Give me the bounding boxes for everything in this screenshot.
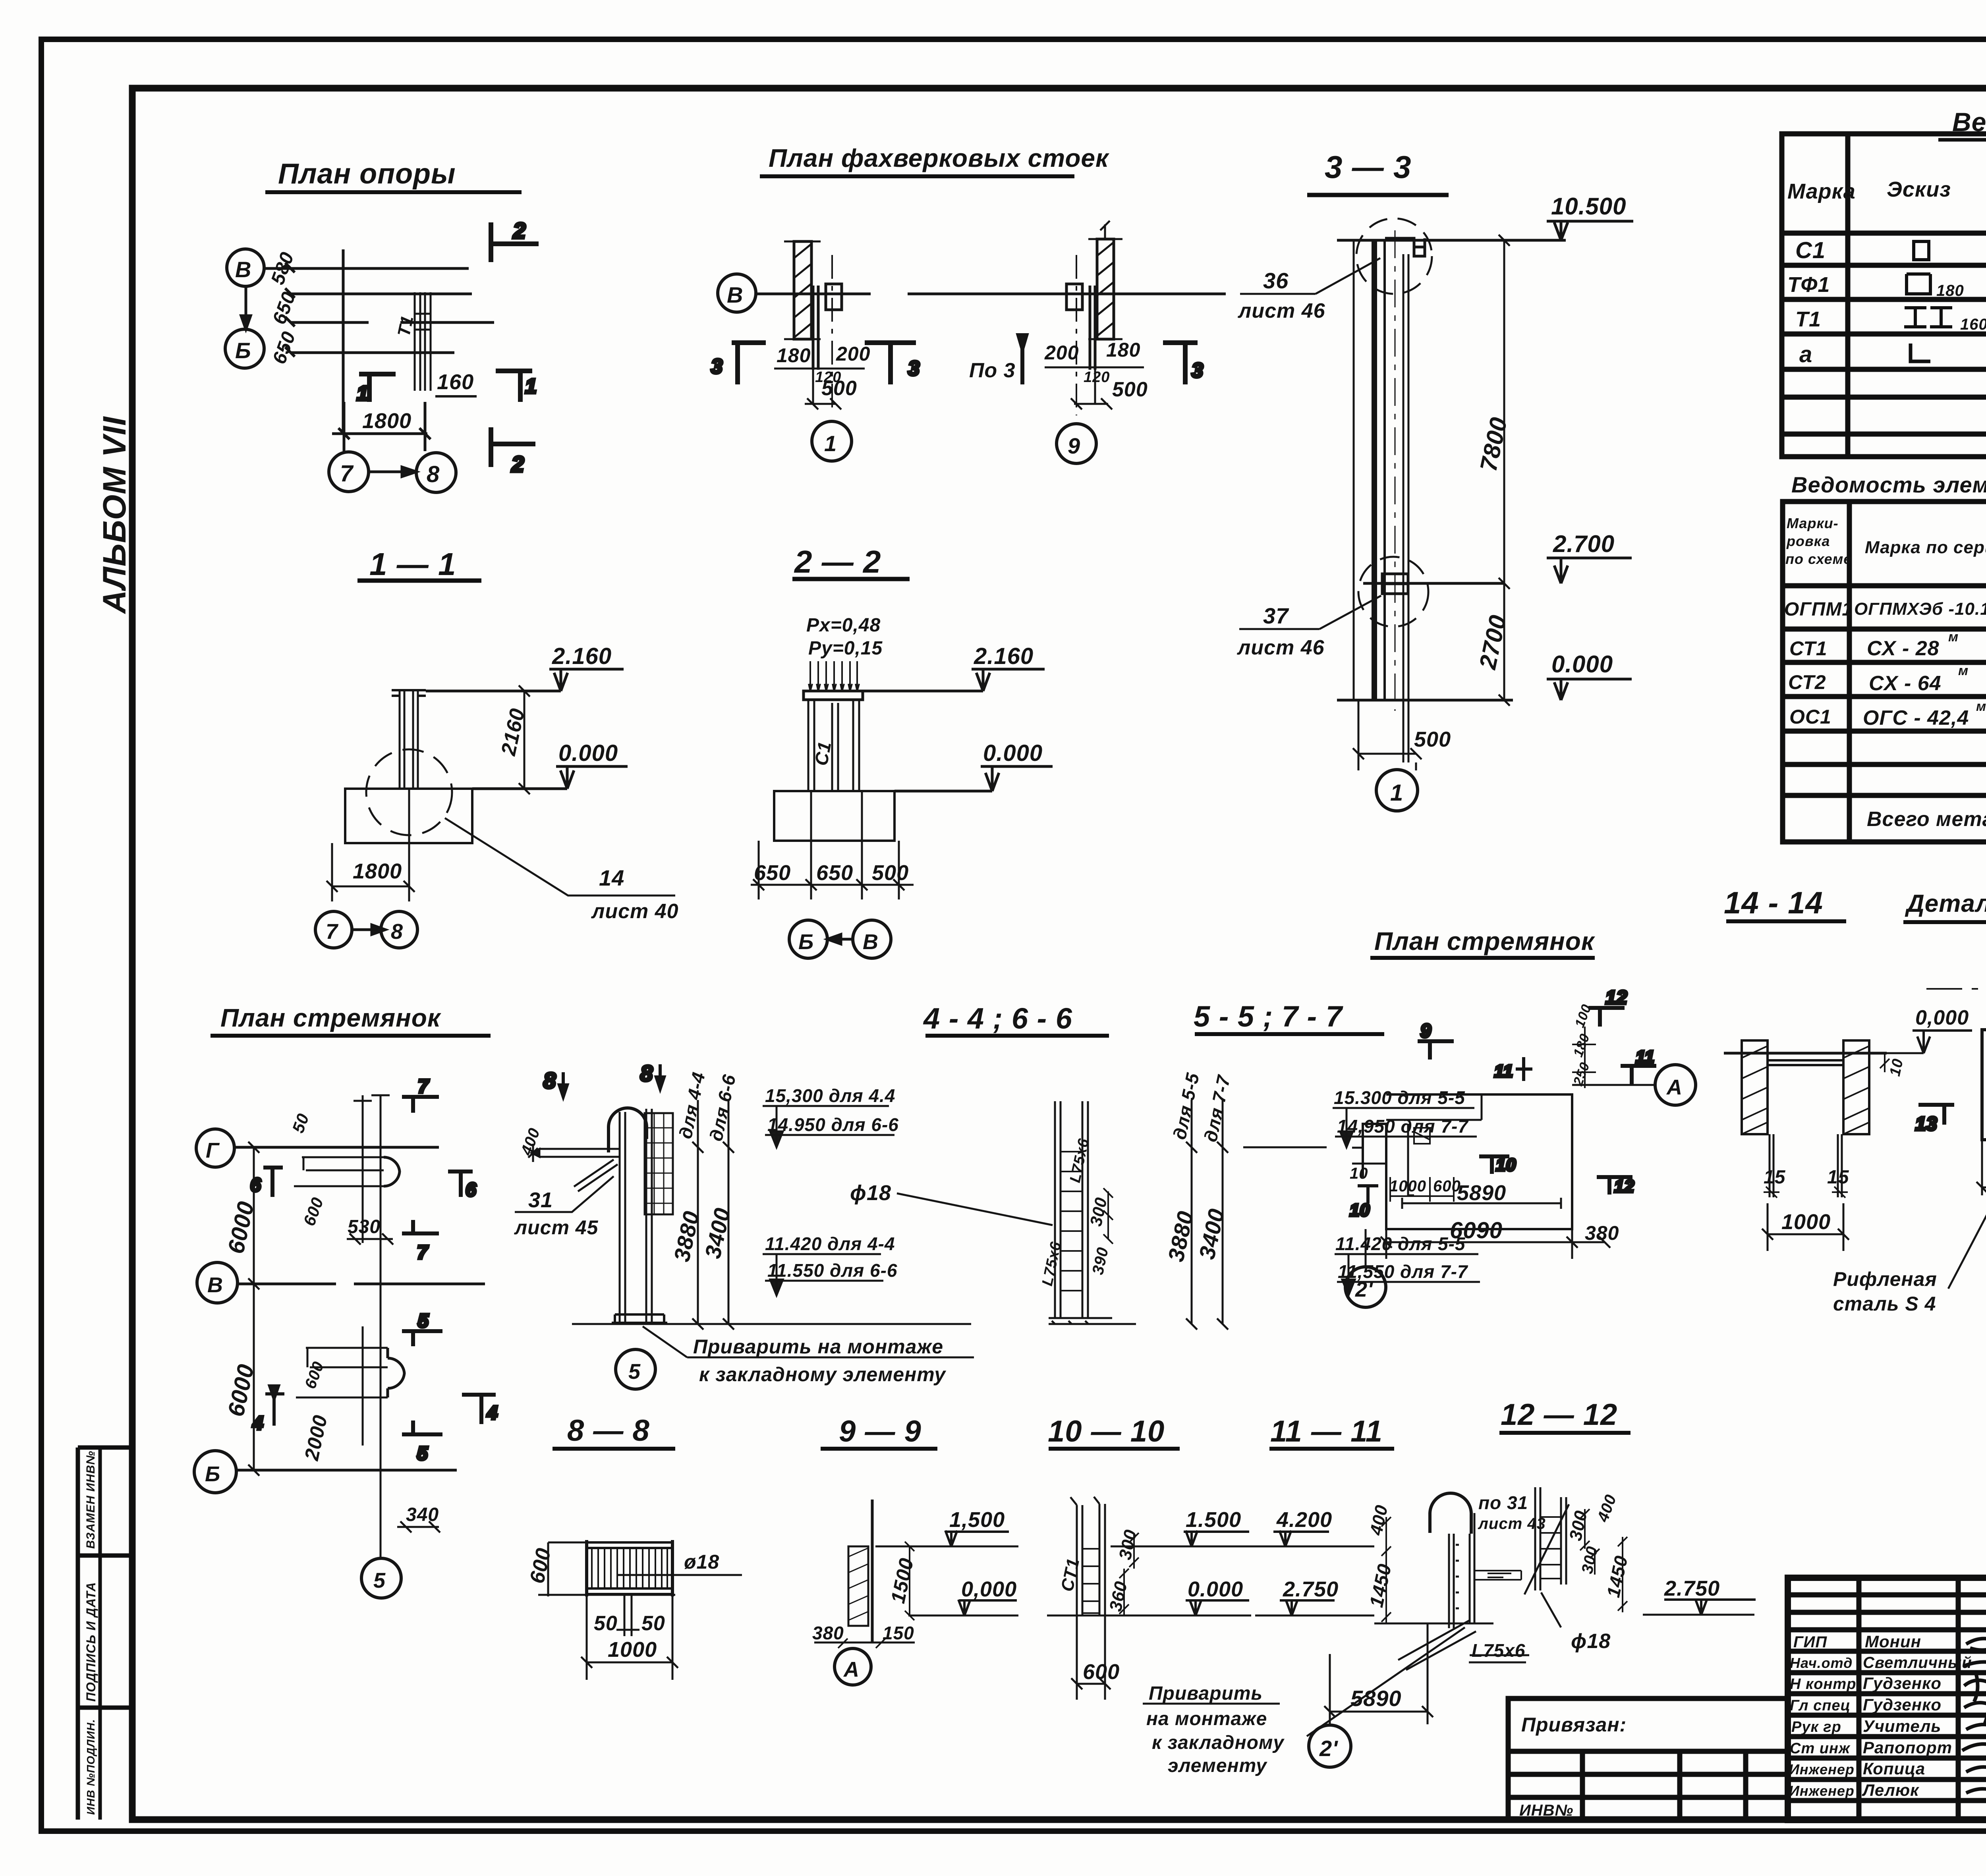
top joint bracket <box>1385 238 1425 256</box>
right pier hatch <box>1843 1046 1869 1134</box>
marker 4 left <box>265 1386 284 1426</box>
svg-text:650: 650 <box>754 861 791 885</box>
hatched wall right <box>1097 239 1114 339</box>
svg-text:ОС1: ОС1 <box>1789 706 1831 728</box>
section marker 2 top <box>491 222 539 262</box>
svg-text:ПОДПИСЬ И ДАТА: ПОДПИСЬ И ДАТА <box>84 1582 98 1702</box>
title underline <box>760 174 1074 178</box>
dim line 500 left <box>805 370 841 409</box>
wall top tick right <box>1100 221 1110 239</box>
dim line 6090 <box>1381 1229 1578 1259</box>
marker 7 bottom <box>402 1220 439 1233</box>
svg-text:6: 6 <box>250 1175 261 1196</box>
dim 1500 line <box>905 1542 914 1620</box>
level line 1.500 b <box>1111 1546 1251 1548</box>
table2 column lines <box>1847 502 1852 842</box>
section marker По3 flag <box>1018 335 1026 384</box>
svg-text:Эскиз: Эскиз <box>1887 178 1951 201</box>
svg-text:6: 6 <box>466 1179 477 1200</box>
TABLE 2 Ведомость элементов по серии <box>1783 472 1986 842</box>
dim line для 6-6 <box>723 1100 734 1330</box>
ladder rails 4-4 <box>620 1109 652 1323</box>
svg-text:План стремянок: План стремянок <box>1374 927 1596 955</box>
ground line <box>1337 699 1513 702</box>
svg-text:Ст инж: Ст инж <box>1790 1740 1851 1757</box>
dim line для 5-5 <box>1186 1100 1197 1330</box>
lower stair hook <box>388 1348 404 1397</box>
ground line 9-9 <box>814 1642 915 1644</box>
arrow В to Б <box>241 286 251 329</box>
svg-text:м: м <box>1958 663 1969 678</box>
dim line 5890 b <box>1324 1623 1433 1724</box>
section marker 1 right <box>496 371 532 402</box>
svg-text:8: 8 <box>640 1061 653 1086</box>
level line 4.200 <box>1251 1546 1374 1548</box>
DRAWING Section 4-4 6-6 <box>514 1002 1109 1389</box>
ground line 11-11 <box>1374 1623 1493 1625</box>
svg-text:Деталь съемного щита: Деталь съемного щита <box>1905 890 1986 917</box>
level flag 2.160 <box>549 669 624 691</box>
svg-text:10: 10 <box>1350 1165 1368 1182</box>
svg-text:11.420 для 5-5: 11.420 для 5-5 <box>1335 1233 1466 1254</box>
right pier hatched <box>1843 1040 1869 1134</box>
dim 400 line b <box>1381 1517 1391 1546</box>
level line 0.000 right <box>894 790 992 793</box>
svg-text:План опоры: План опоры <box>278 158 456 190</box>
svg-text:3: 3 <box>908 357 920 380</box>
axis line left detail <box>756 293 871 295</box>
svg-text:А: А <box>843 1658 860 1681</box>
svg-text:В: В <box>863 930 879 954</box>
title underline <box>821 1447 937 1451</box>
level underline 14950 <box>765 1134 894 1136</box>
axis line Б <box>291 351 454 354</box>
grid circle Г <box>196 1129 234 1167</box>
axis line Б <box>236 1469 457 1472</box>
axis stub 5-5 <box>1243 1146 1327 1148</box>
svg-text:Н контр.: Н контр. <box>1790 1676 1861 1693</box>
level line 11420 b <box>1335 1254 1478 1295</box>
platform inner edge <box>1386 1094 1572 1229</box>
svg-text:Приварить: Приварить <box>1149 1683 1263 1704</box>
level line 0.000 c <box>908 1615 1018 1617</box>
top joint detail circle <box>1356 218 1432 294</box>
svg-text:Рх=0,48: Рх=0,48 <box>806 615 881 636</box>
DRAWING Section 11-11 <box>1143 1415 1546 1776</box>
svg-text:0.000: 0.000 <box>1188 1577 1243 1601</box>
level line 15300 b <box>1333 1108 1474 1147</box>
marker 8 right arrow <box>656 1064 664 1089</box>
small dims top right <box>1572 1027 1596 1088</box>
svg-text:5 - 5 ; 7 - 7: 5 - 5 ; 7 - 7 <box>1194 1000 1344 1033</box>
svg-text:Б: Б <box>235 338 251 363</box>
svg-text:ОГС - 42,4: ОГС - 42,4 <box>1863 706 1969 730</box>
bolt plate right <box>1066 284 1082 310</box>
plate hatch 9-9 <box>848 1548 868 1620</box>
level flag 0.000 right <box>981 766 1053 791</box>
svg-text:0.000: 0.000 <box>1551 651 1613 677</box>
step dim 300 <box>1103 1188 1113 1244</box>
svg-text:160: 160 <box>437 370 474 394</box>
svg-text:лист 46: лист 46 <box>1236 636 1325 659</box>
svg-text:15: 15 <box>1827 1167 1849 1188</box>
svg-text:1000: 1000 <box>608 1638 657 1662</box>
column body 2-2 <box>808 700 859 791</box>
ground line 10-10 <box>1047 1615 1196 1617</box>
svg-text:11: 11 <box>1494 1062 1513 1081</box>
svg-text:7: 7 <box>417 1242 429 1263</box>
svg-text:Инженер: Инженер <box>1789 1783 1855 1799</box>
svg-text:2 — 2: 2 — 2 <box>794 544 881 579</box>
svg-text:ТФ1: ТФ1 <box>1787 273 1830 297</box>
svg-text:Марка: Марка <box>1787 179 1856 203</box>
svg-text:Копица: Копица <box>1863 1759 1925 1778</box>
circle 1 below <box>1376 770 1418 811</box>
ladder hook 11-11 <box>1430 1493 1471 1534</box>
DRAWING План стремянок left <box>194 1004 498 1598</box>
level flag 0.000 <box>1913 1031 1972 1053</box>
dim line vertical 7800/2700 <box>1499 235 1510 706</box>
svg-text:31: 31 <box>528 1188 553 1212</box>
ladder rungs 5-5 <box>1061 1152 1082 1291</box>
section marker 2 bottom <box>491 427 535 467</box>
svg-text:1800: 1800 <box>353 859 402 883</box>
base plate 5-5 <box>1049 1318 1136 1324</box>
foundation 1-1 <box>345 789 472 843</box>
dim underline right <box>1045 367 1144 369</box>
platform hatch detail <box>1414 1128 1430 1144</box>
column cap 1-1 <box>392 690 426 696</box>
svg-text:по 31: по 31 <box>1478 1492 1528 1513</box>
svg-text:160: 160 <box>1960 316 1986 333</box>
svg-text:2.160: 2.160 <box>974 643 1034 669</box>
marker 11 right <box>1621 1066 1656 1084</box>
dim line 1800 bottom <box>326 789 415 901</box>
grid circle Б <box>194 1451 236 1493</box>
title underline <box>925 1034 1109 1038</box>
title underline <box>792 577 910 581</box>
axis line Г <box>234 1146 439 1149</box>
level line 2.750 <box>1255 1615 1374 1617</box>
title underline <box>1307 193 1449 197</box>
left pier hatched <box>1742 1040 1768 1134</box>
level line 11420 <box>763 1254 881 1295</box>
axis line mid2 <box>291 321 494 324</box>
DRAWING Section 14-14 <box>1724 885 1972 1251</box>
svg-text:Марки-: Марки- <box>1787 515 1839 531</box>
svg-text:2: 2 <box>511 452 524 477</box>
axis line В <box>264 267 469 270</box>
level underline 14950 b <box>1335 1136 1477 1138</box>
svg-text:а: а <box>1799 342 1812 367</box>
ladder channel 11-11 <box>1449 1513 1474 1628</box>
top slab line 14-14 <box>1724 1052 1887 1055</box>
svg-text:50: 50 <box>594 1612 618 1635</box>
svg-text:380: 380 <box>812 1623 844 1643</box>
dim line 500 bottom <box>1353 700 1422 770</box>
DRAWING План стремянок center <box>1345 927 1696 1307</box>
title underline <box>357 579 481 583</box>
level flag 0.000 <box>556 766 628 789</box>
marker 10 right <box>1479 1156 1509 1174</box>
svg-text:ГИП: ГИП <box>1793 1633 1827 1651</box>
svg-text:ОГПМ1: ОГПМ1 <box>1784 599 1853 620</box>
dim line 1000 <box>1762 1203 1849 1251</box>
grid circle В <box>197 1262 238 1303</box>
svg-text:500: 500 <box>872 861 909 885</box>
level line 2.700 <box>1363 582 1504 585</box>
svg-text:Гудзенко: Гудзенко <box>1863 1674 1942 1693</box>
svg-text:650: 650 <box>816 861 853 885</box>
svg-text:1 — 1: 1 — 1 <box>369 546 456 582</box>
level line 2.750 b <box>1643 1614 1754 1616</box>
svg-text:0.000: 0.000 <box>558 740 618 766</box>
title underline <box>1269 1447 1394 1451</box>
svg-text:Нач.отд: Нач.отд <box>1790 1655 1853 1671</box>
svg-text:7: 7 <box>418 1076 429 1097</box>
svg-text:2: 2 <box>513 218 526 243</box>
column T1 plan <box>415 292 431 391</box>
circle В <box>853 920 891 958</box>
svg-text:8: 8 <box>427 461 440 487</box>
leader 31 лист 45 <box>515 1176 614 1212</box>
dim line 600 c <box>1071 1615 1111 1700</box>
svg-text:к закладному элементу: к закладному элементу <box>699 1363 946 1386</box>
svg-text:Учитель: Учитель <box>1863 1717 1941 1735</box>
dim line 1000 600 <box>1390 1177 1454 1202</box>
svg-text:0,000: 0,000 <box>1915 1006 1969 1029</box>
svg-text:1: 1 <box>824 431 837 456</box>
arrow 7 to 8 <box>369 467 416 477</box>
svg-text:500: 500 <box>1112 378 1148 401</box>
lower joint bracket <box>1382 574 1408 594</box>
svg-text:Марка по серии: Марка по серии <box>1865 538 1986 557</box>
column flange right <box>1090 286 1095 370</box>
svg-text:500: 500 <box>821 377 857 400</box>
level line 2.160 <box>426 690 561 693</box>
grid circle Б <box>225 329 264 368</box>
svg-text:5890: 5890 <box>1457 1181 1506 1205</box>
grid circle В <box>227 249 264 286</box>
level flag 4.200 <box>1273 1531 1329 1546</box>
svg-text:В: В <box>235 257 251 282</box>
dim line 500 right <box>1071 370 1112 409</box>
column web line <box>1383 241 1386 701</box>
svg-text:600: 600 <box>1083 1660 1120 1684</box>
leader 37 <box>1239 596 1381 629</box>
svg-text:5: 5 <box>418 1310 429 1332</box>
upper stair verticals <box>363 1095 381 1245</box>
dim line 1000 b <box>581 1596 678 1680</box>
horizontal centerline <box>1926 988 1986 990</box>
step dim 360 <box>1119 1569 1129 1615</box>
column main flange <box>1372 240 1377 700</box>
circle 1 left detail <box>812 421 852 461</box>
wall hatch left <box>794 244 811 338</box>
ladder rails 10-10 <box>1077 1504 1105 1615</box>
svg-text:В: В <box>727 282 743 307</box>
circle 9 right detail <box>1057 424 1096 463</box>
column flange left <box>813 286 818 370</box>
svg-text:4: 4 <box>252 1413 264 1434</box>
level flag 2.750 <box>1280 1600 1335 1615</box>
TITLE BLOCK <box>1788 1546 1986 1827</box>
svg-text:В: В <box>207 1273 223 1297</box>
tick slashes on axis dim <box>285 263 295 357</box>
lower stair verticals <box>363 1245 381 1558</box>
leader приварить <box>643 1326 687 1357</box>
svg-text:9 — 9: 9 — 9 <box>839 1415 922 1448</box>
axis line mid1 <box>291 293 472 295</box>
svg-text:ровка: ровка <box>1786 533 1830 549</box>
marker 8 left arrow <box>559 1072 567 1097</box>
svg-text:8: 8 <box>391 920 403 944</box>
svg-text:АЛЬБОМ VII: АЛЬБОМ VII <box>97 416 133 614</box>
svg-text:7: 7 <box>326 920 339 944</box>
svg-text:11 — 11: 11 — 11 <box>1270 1415 1383 1448</box>
svg-text:по схеме: по схеме <box>1785 551 1852 567</box>
title underline <box>1195 1032 1384 1036</box>
svg-text:ϕ18: ϕ18 <box>850 1181 891 1205</box>
svg-text:лист 45: лист 45 <box>514 1216 599 1239</box>
column centerline <box>1395 230 1396 711</box>
svg-text:Рук гр: Рук гр <box>1791 1719 1841 1735</box>
svg-text:15,300 для 4.4: 15,300 для 4.4 <box>765 1085 895 1106</box>
dim line 650 650 500 <box>751 791 914 899</box>
section marker 3 left-west <box>732 343 766 384</box>
level flag 2.160 right <box>972 669 1045 691</box>
svg-text:на монтаже: на монтаже <box>1146 1708 1267 1729</box>
connector to circle 2' <box>1365 1229 1367 1267</box>
dim line для 4-4 <box>692 1100 703 1330</box>
svg-text:План стремянок: План стремянок <box>220 1004 442 1032</box>
svg-text:Светличный: Светличный <box>1863 1654 1972 1671</box>
platform plan outline <box>1363 1094 1572 1229</box>
title underline <box>1049 1447 1180 1451</box>
base detail circle <box>366 749 452 835</box>
marker 12 top <box>1588 1008 1625 1027</box>
dim 400 tick <box>528 1144 538 1162</box>
level flag 10.500 <box>1547 221 1633 240</box>
svg-text:1800: 1800 <box>362 409 411 433</box>
svg-text:По 3: По 3 <box>969 359 1016 382</box>
DRAWING Section 1-1 <box>315 546 679 948</box>
dim ticks 380 150 <box>838 1639 885 1648</box>
vertical axis line <box>342 249 345 434</box>
dim line 5890 <box>1402 1198 1561 1209</box>
svg-text:14 - 14: 14 - 14 <box>1724 885 1823 920</box>
DRAWING Section 3-3 <box>1236 149 1633 811</box>
centerline left <box>831 255 833 413</box>
dim line 1800 <box>332 402 431 451</box>
svg-text:А: А <box>1666 1075 1683 1099</box>
title underline <box>1370 956 1595 960</box>
DRAWING Section 2-2 <box>751 544 1053 958</box>
privyazan table lines <box>1508 1749 1788 1754</box>
axis to circle A <box>1572 1084 1655 1086</box>
svg-text:500: 500 <box>1414 728 1451 751</box>
dim ticks 15 15 <box>1764 1187 1848 1198</box>
left stub 2' <box>1352 1148 1386 1164</box>
safety cage grate <box>645 1113 673 1214</box>
svg-text:180: 180 <box>777 344 811 367</box>
svg-text:Ведомость элементов по сери: Ведомость элементов по серии 1.450.3-3ВО… <box>1791 472 1986 497</box>
svg-text:1,500: 1,500 <box>949 1508 1005 1532</box>
level line 2.160 right <box>863 690 983 693</box>
privarit underline <box>687 1357 974 1359</box>
upper stair rails <box>294 1157 384 1186</box>
circle А <box>1655 1065 1696 1105</box>
upper stair hook <box>384 1157 400 1186</box>
dim 160 underline <box>435 395 477 398</box>
bracket arm right <box>1474 1571 1521 1580</box>
level line 0.000 <box>472 787 567 790</box>
level flag 0.000 <box>1547 679 1632 700</box>
svg-text:4.200: 4.200 <box>1276 1508 1332 1532</box>
dim line 340 <box>397 1521 440 1532</box>
ladder rungs 10-10 <box>1082 1549 1099 1613</box>
svg-text:ϕ18: ϕ18 <box>1571 1630 1611 1653</box>
svg-text:9: 9 <box>1420 1021 1432 1042</box>
circle 8 <box>416 453 456 492</box>
removable panel between piers <box>1768 1053 1843 1065</box>
post 9-9 <box>871 1500 874 1642</box>
svg-text:0.000: 0.000 <box>983 740 1043 766</box>
svg-text:2.750: 2.750 <box>1664 1577 1720 1600</box>
svg-text:Привязан:: Привязан: <box>1521 1714 1627 1736</box>
svg-text:Гудзенко: Гудзенко <box>1863 1695 1942 1714</box>
dim line 2160 <box>519 685 530 794</box>
svg-text:Всего металла :: Всего металла : <box>1867 808 1986 831</box>
step dim 300 b <box>1129 1533 1139 1569</box>
level underline 11550 <box>765 1280 883 1282</box>
title underline <box>553 1447 675 1451</box>
wall bracket arm <box>531 1149 620 1157</box>
bracket diagonal plate <box>574 1160 618 1191</box>
title underline <box>1726 919 1846 923</box>
svg-text:ИНВ№: ИНВ№ <box>1519 1802 1573 1819</box>
axis line В <box>238 1283 485 1285</box>
grate top rail <box>587 1542 672 1548</box>
marker 11 left <box>1516 1057 1532 1081</box>
grate bottom rail <box>587 1588 672 1594</box>
circle 5 bottom <box>361 1558 401 1598</box>
svg-text:37: 37 <box>1263 603 1289 628</box>
svg-text:8: 8 <box>543 1068 556 1093</box>
svg-text:13: 13 <box>1915 1114 1937 1135</box>
svg-text:4 - 4 ; 6 - 6: 4 - 4 ; 6 - 6 <box>923 1002 1072 1035</box>
lower stair rails <box>296 1348 388 1397</box>
svg-text:С1: С1 <box>1795 237 1826 263</box>
svg-text:15.300 для 5-5: 15.300 для 5-5 <box>1334 1087 1465 1108</box>
circle 7 <box>315 911 352 948</box>
svg-text:Приварить на монтаже: Приварить на монтаже <box>693 1336 943 1358</box>
svg-text:5890: 5890 <box>1350 1686 1402 1711</box>
svg-text:200: 200 <box>836 343 870 365</box>
svg-text:ОГПМХЭб -10.12: ОГПМХЭб -10.12 <box>1854 599 1986 619</box>
svg-text:м: м <box>1948 629 1959 645</box>
leader Ф18 <box>897 1193 1053 1225</box>
svg-text:2.750: 2.750 <box>1283 1577 1339 1601</box>
marker 6 left <box>263 1168 283 1197</box>
marker 13 left <box>1918 1105 1954 1125</box>
svg-text:8 — 8: 8 — 8 <box>567 1414 650 1448</box>
svg-text:36: 36 <box>1263 268 1289 293</box>
svg-text:Рапопорт: Рапопорт <box>1863 1738 1952 1757</box>
svg-text:12 — 12: 12 — 12 <box>1501 1398 1617 1432</box>
signature squiggles <box>1962 1632 1986 1827</box>
lower joint detail circle <box>1358 557 1428 627</box>
